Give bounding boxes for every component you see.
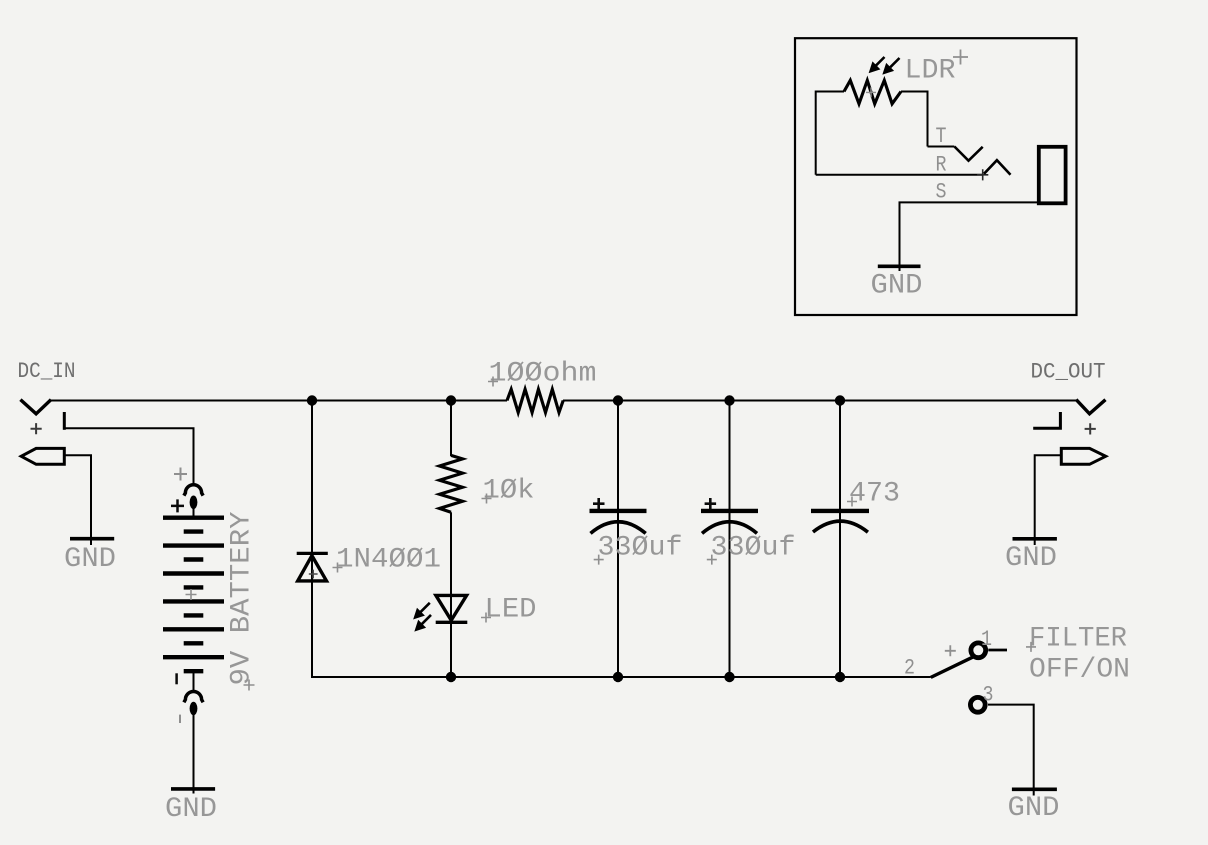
svg-text:OFF/ON: OFF/ON <box>1029 655 1130 686</box>
wire DC_IN bracket to battery plus <box>63 428 194 484</box>
svg-text:DC_IN: DC_IN <box>18 359 76 384</box>
capacitor C1 plus sign <box>593 498 605 510</box>
wire battery minus stub <box>193 671 195 690</box>
junction dot top rail at C2 <box>724 395 734 405</box>
battery BT1 origin cross <box>186 589 197 600</box>
DC_IN jack switch contact bracket <box>63 414 66 429</box>
resistor R2 value origin cross <box>482 494 492 504</box>
battery BT1 minus pin marker <box>179 715 181 723</box>
switch S1 pin 1 stub <box>988 649 1007 652</box>
junction dot bottom rail at LED <box>446 672 456 682</box>
wire switch pin 3 to ground <box>988 705 1034 796</box>
svg-text:LED: LED <box>485 595 537 626</box>
wire sleeve line <box>900 202 1039 271</box>
ground GND4 bar <box>1012 787 1057 791</box>
svg-text:GND: GND <box>165 794 217 825</box>
diode D1 cathode bar <box>297 552 328 555</box>
junction dot top rail at C1 <box>613 395 623 405</box>
capacitor C2 bottom plate arc <box>702 522 757 534</box>
battery BT1 bottom clip pin <box>190 702 198 716</box>
svg-text:33Øuf: 33Øuf <box>598 533 683 564</box>
junction dot top rail at 10k <box>446 395 456 405</box>
svg-text:1: 1 <box>981 627 992 652</box>
battery BT1 plus sign <box>171 499 184 512</box>
svg-text:2: 2 <box>904 656 915 681</box>
wire diode top <box>311 401 313 679</box>
pin connector DC_IN sleeve <box>21 448 64 464</box>
capacitor C3 bottom plate arc <box>813 521 868 532</box>
switch S1 pin 1 circle <box>971 643 986 658</box>
junction dot bottom rail at C2 <box>724 672 734 682</box>
jack J3 tip contact check <box>954 147 982 161</box>
jack J3 tip contact line <box>928 146 955 148</box>
capacitor C1 bottom plate arc <box>591 522 646 534</box>
battery BT1 minus sign <box>175 673 178 684</box>
svg-text:1N4ØØ1: 1N4ØØ1 <box>336 545 441 576</box>
battery BT1 top clip pin <box>190 496 198 510</box>
inset frame box <box>795 38 1077 315</box>
wire LDR right lead to T <box>901 92 928 147</box>
LED D2 value origin cross <box>481 613 491 623</box>
svg-text:GND: GND <box>64 544 116 575</box>
polarity plus DC_OUT <box>1085 423 1096 434</box>
battery BT1 value origin cross <box>244 680 255 691</box>
capacitor C1 top plate <box>590 509 647 513</box>
svg-text:T: T <box>936 124 947 149</box>
svg-text:GND: GND <box>1005 543 1057 574</box>
LDR R3 arrow 2 <box>884 58 900 74</box>
wire C1 vertical <box>617 401 619 679</box>
LDR R3 arrow 1 <box>870 57 885 72</box>
wire DC_IN sleeve to ground <box>64 455 91 545</box>
ground GND3 bar <box>1013 537 1057 541</box>
junction dot top rail at diode <box>307 395 317 405</box>
battery BT1 short plates <box>184 532 204 672</box>
capacitor C2 plus sign <box>705 498 717 510</box>
LED D2 arrow 2 <box>416 615 432 631</box>
DC_OUT jack switch contact bracket <box>1035 414 1061 429</box>
ground GND5 bar <box>878 264 921 268</box>
jack J3 ring origin cross <box>977 169 988 180</box>
switch S1 origin cross <box>945 645 956 656</box>
svg-text:GND: GND <box>1008 793 1060 824</box>
wire battery to ground <box>193 715 195 794</box>
svg-text:GND: GND <box>871 270 923 301</box>
switch S1 lever <box>931 657 973 677</box>
junction dot bottom rail at C1 <box>613 672 623 682</box>
svg-text:S: S <box>936 180 947 205</box>
wire C2 vertical <box>729 401 731 679</box>
battery BT1 top clip arc <box>184 485 203 496</box>
connector J2 DC_OUT jack tip <box>1077 401 1104 414</box>
LED D2 cathode bar <box>436 621 468 624</box>
LDR R3 origin cross <box>866 87 876 97</box>
junction dot bottom rail at C3 <box>835 672 845 682</box>
wire bottom rail <box>312 676 931 678</box>
wire ring line <box>816 174 983 176</box>
diode D1 origin cross <box>309 570 318 579</box>
connector J1 DC_IN jack tip <box>22 401 50 414</box>
diode D1 triangle <box>298 556 327 581</box>
svg-text:DC_OUT: DC_OUT <box>1031 360 1106 385</box>
resistor R1 100ohm zigzag <box>507 389 563 412</box>
switch S1 pin 3 circle <box>970 697 985 712</box>
battery BT1 plus pin marker <box>174 468 187 481</box>
capacitor C3 value origin cross <box>847 497 857 507</box>
wire top rail right of resistor <box>563 400 1078 402</box>
svg-text:R: R <box>936 153 947 178</box>
capacitor C2 top plate <box>701 509 758 513</box>
wire battery clip to plate <box>193 508 195 518</box>
svg-text:1ØØohm: 1ØØohm <box>489 359 597 390</box>
resistor R2 10k zigzag <box>440 455 463 512</box>
capacitor C2 value origin cross <box>707 555 717 565</box>
svg-text:1Øk: 1Øk <box>483 476 535 507</box>
LDR R3 name origin cross <box>953 50 968 65</box>
ground GND1 bar <box>70 537 114 541</box>
resistor R1 value origin cross <box>488 377 498 387</box>
capacitor C1 value origin cross <box>594 555 604 565</box>
battery BT1 bottom clip arc <box>184 691 203 702</box>
wire C3 vertical <box>839 401 841 679</box>
svg-text:FILTER: FILTER <box>1029 623 1127 654</box>
jack J3 body rectangle <box>1039 147 1066 204</box>
wire 10k to LED <box>450 512 452 678</box>
wire 10k top <box>450 401 452 457</box>
junction dot top rail at C3 <box>835 395 845 405</box>
switch S1 name origin cross <box>1026 642 1036 652</box>
wire top rail <box>50 400 508 402</box>
jack J3 ring contact chevron <box>984 160 1011 175</box>
pin connector DC_OUT sleeve <box>1061 448 1105 464</box>
LED D2 triangle <box>436 595 467 620</box>
svg-text:LDR: LDR <box>905 55 956 86</box>
LDR R3 zigzag <box>844 80 901 103</box>
svg-text:33Øuf: 33Øuf <box>711 533 796 564</box>
polarity plus DC_IN <box>31 423 42 434</box>
svg-text:9V BATTERY: 9V BATTERY <box>227 511 258 685</box>
wire DC_OUT sleeve to ground <box>1035 455 1062 545</box>
svg-text:473: 473 <box>849 479 900 510</box>
ground GND2 bar <box>171 787 215 791</box>
capacitor C3 top plate <box>811 509 869 513</box>
diode D1 value origin cross <box>333 563 343 573</box>
wire LDR left lead <box>816 92 844 175</box>
battery BT1 long plates <box>163 518 224 658</box>
LED D2 arrow 1 <box>414 603 430 619</box>
